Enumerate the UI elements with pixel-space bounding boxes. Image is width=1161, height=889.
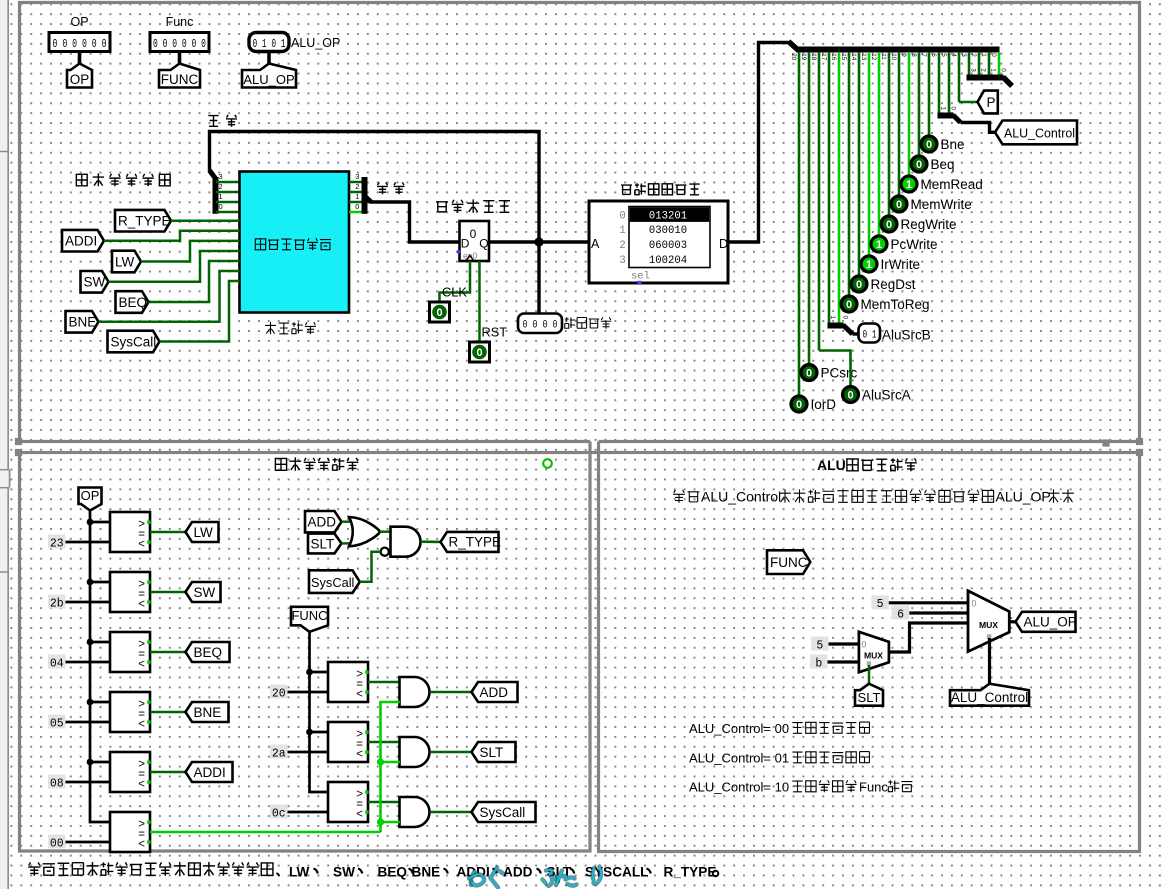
comparator LW	[110, 512, 150, 552]
svg-text:0: 0	[470, 227, 477, 241]
svg-text:0 1: 0 1	[863, 329, 877, 341]
wire constant 00	[66, 841, 111, 844]
svg-text:1: 1	[980, 53, 987, 57]
svg-text:6: 6	[930, 53, 937, 57]
mux M2	[968, 591, 1009, 652]
tunnel OP	[67, 64, 92, 88]
svg-text:Beq: Beq	[931, 157, 955, 172]
svg-text:16: 16	[830, 53, 837, 61]
svg-text:SW: SW	[84, 275, 106, 290]
svg-text:1: 1	[829, 316, 836, 320]
wire splitter bit12	[878, 52, 881, 235]
wire constant 08	[66, 781, 111, 784]
tunnel SysCall out	[472, 802, 536, 822]
svg-text:0: 0	[916, 159, 922, 171]
wire state-out bit2	[349, 191, 364, 194]
svg-text:ALU_Control: ALU_Control	[701, 489, 781, 505]
bus ROM D to splitter	[728, 43, 790, 243]
label combinational logic	[265, 322, 276, 334]
comparator F-SLT	[328, 722, 368, 762]
wire equals FSLT	[368, 741, 400, 744]
svg-text:PCsrc: PCsrc	[821, 366, 858, 381]
svg-text:LW: LW	[194, 525, 214, 540]
svg-text:SysCall: SysCall	[111, 334, 157, 349]
wire SLT to OR	[342, 542, 354, 545]
svg-text:0: 0	[926, 139, 932, 151]
mux M1	[859, 632, 889, 673]
pin Beq output	[911, 156, 927, 172]
and gate G-SLT	[400, 737, 430, 767]
svg-text:BEQ: BEQ	[378, 865, 407, 880]
svg-text:19: 19	[800, 53, 807, 61]
tunnel P	[978, 91, 998, 114]
svg-text:1: 1	[876, 239, 882, 251]
wire bus to ROM A	[539, 240, 589, 243]
tunnel ALU_OP	[242, 64, 296, 88]
svg-text:BEQ: BEQ	[119, 295, 148, 310]
svg-text:2a: 2a	[272, 747, 286, 760]
svg-text:SLT: SLT	[480, 745, 504, 760]
svg-text:12: 12	[870, 53, 877, 61]
label xiantai current-state	[208, 116, 218, 127]
constant 23	[48, 535, 66, 549]
junction register Q	[534, 237, 543, 246]
junction OP bus row LW	[87, 519, 94, 526]
wire OR to NAND	[380, 530, 391, 533]
tunnel OP down	[79, 488, 102, 511]
wire register clock	[440, 261, 471, 302]
svg-text:ADD: ADD	[308, 515, 337, 530]
svg-text:17: 17	[820, 53, 827, 61]
svg-text:030010: 030010	[649, 225, 687, 237]
svg-text:2: 2	[970, 53, 977, 57]
svg-text:<: <	[138, 659, 145, 671]
wire ADDI to box	[104, 231, 240, 241]
constant 2a	[270, 745, 288, 759]
wire OP branch BEQ	[90, 641, 110, 644]
svg-text:0: 0	[862, 639, 867, 649]
svg-text:2: 2	[219, 182, 223, 191]
svg-text:2b: 2b	[50, 597, 64, 610]
svg-text:ALU_OP: ALU_OP	[291, 36, 340, 50]
comparator F-SysCall	[328, 782, 368, 822]
wire pin Func to tunnel	[178, 52, 182, 65]
tunnel SLT select	[855, 684, 883, 706]
wire OP branch BNE	[90, 701, 110, 704]
wire splitter bit18	[818, 52, 821, 351]
svg-text:SW: SW	[194, 585, 216, 600]
tunnel SLT in2	[308, 534, 342, 554]
wire BNE to box	[99, 271, 240, 322]
svg-text:0 1 0 1: 0 1 0 1	[253, 38, 286, 51]
svg-text:<: <	[356, 689, 363, 701]
svg-text:<: <	[138, 599, 145, 611]
wire constant 04	[66, 661, 111, 664]
wire bus to probe	[537, 242, 540, 314]
wire to ALU_Control tunnel	[961, 123, 996, 133]
title instruction decode logic	[275, 458, 286, 470]
svg-text:11: 11	[880, 53, 887, 60]
wire AluSrcA bend	[819, 351, 851, 387]
svg-text:FUNC: FUNC	[770, 555, 808, 570]
frame bottom-right panel	[599, 453, 1140, 852]
svg-text:013201: 013201	[649, 210, 687, 222]
bus next-state to register D	[370, 202, 459, 242]
probe AluSrcB	[859, 324, 881, 343]
wire constant 20	[288, 691, 329, 694]
svg-text:MUX: MUX	[979, 620, 998, 630]
svg-text:CLK: CLK	[442, 285, 467, 300]
constant 00	[48, 835, 66, 849]
svg-text:AluSrcA: AluSrcA	[862, 388, 911, 403]
svg-text:0: 0	[1000, 68, 1007, 72]
tunnel LW	[186, 522, 219, 542]
svg-text:0: 0	[847, 390, 853, 402]
svg-text:1: 1	[866, 259, 872, 271]
junction OP bus row BEQ	[87, 639, 94, 646]
label state register	[436, 202, 448, 212]
wire register Q out	[489, 240, 539, 243]
svg-text:3: 3	[619, 255, 625, 267]
wire register reset	[478, 261, 481, 342]
frame top panel	[20, 3, 1140, 442]
wire constant 2b	[66, 601, 111, 604]
svg-text:RST: RST	[482, 325, 508, 340]
svg-text:Func: Func	[859, 780, 888, 795]
svg-text:0: 0	[476, 347, 482, 359]
wire FUNC branch SLT	[310, 731, 329, 734]
svg-text:18: 18	[810, 53, 817, 61]
svg-text:0: 0	[219, 202, 223, 211]
tunnel ALU_OP out	[1016, 612, 1076, 632]
wire splitter bit6	[938, 52, 941, 113]
tunnel BEQ	[186, 642, 230, 662]
svg-text:2: 2	[355, 182, 359, 191]
ROM microprogram	[589, 201, 728, 283]
constant 05	[48, 715, 66, 729]
svg-text:SW: SW	[333, 865, 355, 880]
watermark cyan script	[471, 872, 475, 886]
frame mid divider	[20, 451, 1140, 454]
constant 0c	[270, 805, 288, 819]
wire splitter bit10	[898, 52, 901, 195]
wire 5 to mux2	[889, 601, 968, 604]
svg-text:1: 1	[906, 179, 912, 191]
svg-text:D: D	[461, 237, 470, 251]
splitter state-in	[210, 171, 216, 179]
svg-text:ALU_OP: ALU_OP	[1024, 615, 1077, 630]
junction OP bus row BNE	[87, 699, 94, 706]
svg-text:LW: LW	[115, 254, 135, 269]
svg-text:2: 2	[980, 68, 987, 72]
wire splitter bit11	[888, 52, 891, 215]
svg-text:ALU_Control: ALU_Control	[951, 690, 1028, 705]
svg-text:00: 00	[50, 837, 64, 850]
svg-text:14: 14	[850, 53, 857, 61]
svg-text:5: 5	[877, 598, 884, 611]
wire constant 05	[66, 721, 111, 724]
wire splitter bit15	[848, 52, 851, 295]
wire splitter bit5	[948, 52, 951, 113]
svg-text:05: 05	[50, 717, 64, 730]
tunnel ADD in2	[305, 511, 342, 532]
wire state-in bit0	[216, 211, 240, 214]
svg-text:2: 2	[619, 240, 625, 252]
wire mux2 select	[988, 638, 991, 684]
tunnel FUNC down	[291, 607, 328, 632]
svg-text:ALU_Control= 01: ALU_Control= 01	[689, 751, 789, 766]
svg-text:3: 3	[970, 68, 977, 72]
tunnel SysCall in	[108, 331, 160, 353]
constant 5 big	[871, 595, 889, 609]
svg-text:0: 0	[896, 199, 902, 211]
tunnel BNE in	[66, 311, 99, 333]
pin RegDst output	[851, 276, 867, 292]
bus FUNC vertical	[310, 632, 329, 792]
svg-text:08: 08	[50, 777, 64, 790]
and gate G-SysCall	[400, 797, 430, 827]
wire mux1 select	[868, 665, 871, 684]
comparator ADDI	[110, 752, 150, 792]
svg-text:P: P	[987, 95, 996, 110]
svg-text:<: <	[138, 539, 145, 551]
wire SW to box	[109, 251, 240, 282]
svg-text:20: 20	[790, 53, 797, 61]
svg-text:IorD: IorD	[811, 397, 837, 412]
svg-text:9: 9	[900, 53, 907, 57]
wire splitter bit13	[868, 52, 871, 255]
pin MemRead output	[901, 176, 917, 192]
tunnel ADD out	[472, 682, 518, 702]
wire bright branch 822	[381, 821, 400, 824]
pin CLK input	[430, 302, 450, 322]
svg-text:0: 0	[886, 219, 892, 231]
svg-text:5: 5	[940, 53, 947, 57]
svg-text:ALU_Control= 00: ALU_Control= 00	[689, 721, 789, 736]
wire R_TYPE out	[421, 540, 442, 543]
svg-text:0: 0	[972, 599, 977, 609]
svg-text:7: 7	[920, 53, 927, 57]
svg-text:0: 0	[436, 307, 442, 319]
wire OP branch SW	[90, 581, 110, 584]
svg-text:<: <	[138, 779, 145, 791]
junction OP bus row SW	[87, 579, 94, 586]
tunnel BNE	[186, 702, 229, 722]
wire splitter bit7	[928, 52, 931, 135]
tunnel LW in	[112, 251, 141, 273]
svg-text:MUX: MUX	[864, 650, 883, 660]
svg-text:1: 1	[355, 192, 359, 201]
svg-text:0: 0	[355, 202, 359, 211]
bus feedback xiantai	[210, 132, 540, 243]
svg-text:0: 0	[619, 210, 625, 222]
wire splitter bit8	[918, 52, 921, 155]
wire mux2 out	[1009, 620, 1016, 623]
svg-text:OP: OP	[81, 488, 100, 503]
svg-text:Func: Func	[166, 15, 194, 29]
and gate G-ADD	[400, 677, 430, 707]
wire splitter bit4	[958, 52, 961, 102]
svg-text:15: 15	[840, 53, 847, 61]
svg-text:1: 1	[619, 225, 625, 237]
svg-text:10: 10	[890, 53, 897, 61]
svg-text:MemRead: MemRead	[921, 177, 983, 192]
wire pin ALU_OP to tunnel	[267, 52, 271, 65]
wire LW to box	[141, 241, 240, 262]
comparator BEQ	[110, 632, 150, 672]
svg-text:AluSrcB: AluSrcB	[882, 328, 931, 343]
label instruction decode signals	[76, 174, 87, 185]
tunnel BEQ in	[116, 291, 149, 313]
wire state-in bit2	[216, 191, 240, 194]
svg-text:LW: LW	[289, 865, 310, 880]
wire equals ADDI	[150, 771, 186, 774]
svg-text:4: 4	[950, 53, 957, 57]
caption text	[28, 862, 40, 875]
svg-text:060003: 060003	[649, 240, 687, 252]
pin RegWrite output	[881, 216, 897, 232]
wire equals LW	[150, 531, 186, 534]
wire splitter bit19	[808, 52, 811, 363]
svg-text:sel: sel	[631, 271, 650, 283]
svg-text:BNE: BNE	[412, 865, 441, 880]
wire to P tunnel	[959, 101, 978, 104]
svg-text:FUNC: FUNC	[291, 608, 327, 623]
svg-text:b: b	[815, 657, 822, 670]
wire constant 0c	[288, 811, 329, 814]
or gate U1	[349, 517, 380, 546]
comparator 00	[110, 812, 150, 852]
comparator BNE	[110, 692, 150, 732]
wire bright riser	[381, 702, 400, 832]
svg-text:IrWrite: IrWrite	[881, 257, 921, 272]
wire equals FSysCall	[368, 801, 400, 804]
wire splitter bit17	[828, 52, 831, 323]
pin PCsrc output	[801, 365, 817, 381]
wire splitter bit2	[978, 52, 981, 75]
wire R_TYPE to box	[171, 219, 240, 222]
junction OP bus row ADDI	[87, 759, 94, 766]
svg-text:23: 23	[50, 537, 64, 550]
svg-text:3: 3	[960, 53, 967, 57]
svg-text:SLT: SLT	[858, 690, 881, 705]
svg-text:R_TYPE: R_TYPE	[449, 535, 502, 550]
svg-text:OP: OP	[70, 72, 90, 87]
left window strip	[0, 0, 8, 889]
constant 04	[48, 655, 66, 669]
constant 2b	[48, 595, 66, 609]
register state 4-bit	[460, 221, 490, 261]
svg-text:PcWrite: PcWrite	[891, 237, 938, 252]
tunnel ADDI	[186, 762, 233, 782]
wire equals BNE	[150, 711, 186, 714]
constant 20	[270, 685, 288, 699]
pin MemWrite output	[891, 196, 907, 212]
constant b small	[810, 655, 828, 669]
wire state-out bit3	[349, 181, 364, 184]
tunnel R_TYPE in	[115, 210, 171, 232]
wire 5 to mux1	[829, 642, 860, 645]
svg-text:RegDst: RegDst	[871, 277, 916, 292]
splitter main 21-bit	[789, 42, 799, 51]
pin PcWrite output	[871, 236, 887, 252]
svg-text:0: 0	[841, 316, 848, 320]
wire SysCall to NAND	[360, 552, 381, 582]
junction bright 822	[377, 818, 384, 825]
tunnel ALU_Control select	[950, 684, 1029, 706]
svg-text:0: 0	[796, 399, 802, 411]
pin ALU_OP 4-bit output	[249, 33, 289, 52]
state machine combinational box	[240, 172, 350, 313]
frame handles	[15, 438, 22, 445]
indicator green ring	[543, 459, 552, 468]
wire splitter bit3	[968, 52, 971, 75]
svg-text:ALU_OP: ALU_OP	[996, 489, 1051, 505]
svg-text:0: 0	[846, 299, 852, 311]
svg-text:13: 13	[860, 53, 867, 61]
svg-text:1: 1	[219, 192, 223, 201]
and gate U2 inverted input	[391, 527, 421, 557]
svg-text:0 0 0 0 0 0: 0 0 0 0 0 0	[153, 38, 206, 51]
bus OP vertical	[90, 511, 110, 823]
svg-text:ADD: ADD	[503, 865, 533, 880]
tunnel SW	[186, 582, 221, 602]
wire FUNC branch ADD	[310, 671, 329, 674]
svg-text:SysCall: SysCall	[480, 805, 526, 820]
svg-text:3: 3	[219, 172, 223, 181]
svg-text:R_TYPE: R_TYPE	[118, 214, 171, 229]
svg-text:1: 1	[990, 68, 997, 72]
wire state-out bit1	[349, 201, 364, 204]
svg-text:FUNC: FUNC	[161, 72, 199, 87]
pin MemToReg output	[841, 296, 857, 312]
svg-text:0 0 0 0: 0 0 0 0	[523, 320, 558, 332]
wire splitter bit14	[858, 52, 861, 275]
comparator SW	[110, 572, 150, 612]
svg-text:R_TYPE: R_TYPE	[664, 865, 717, 880]
svg-text:Bne: Bne	[941, 137, 965, 152]
frame bottom-left panel	[20, 453, 591, 852]
pin IrWrite output	[861, 256, 877, 272]
wire pin OP to tunnel	[78, 52, 82, 65]
svg-text:1: 1	[940, 107, 947, 111]
wire b to mux1	[828, 660, 860, 663]
junction FUNC bus row SLT	[306, 729, 313, 736]
wire 6 to mux2	[909, 611, 968, 614]
junction FUNC bus row ADD	[306, 669, 313, 676]
wire equals SW	[150, 591, 186, 594]
subtitle explain line	[673, 490, 685, 503]
svg-text:5: 5	[816, 639, 823, 652]
label microprogram controller	[621, 185, 632, 194]
svg-text:<: <	[356, 749, 363, 761]
label citai next-state	[377, 182, 388, 194]
svg-text:<: <	[138, 839, 145, 851]
svg-text:<: <	[138, 719, 145, 731]
wire ADD to OR	[342, 520, 354, 523]
svg-text:04: 04	[50, 657, 64, 670]
svg-text:ADDI: ADDI	[65, 234, 97, 249]
svg-text:ADD: ADD	[480, 685, 509, 700]
wire and out ADD	[430, 691, 472, 694]
pin IorD output	[791, 396, 807, 412]
wire splitter bit20	[798, 52, 801, 395]
constant 5 small	[811, 637, 829, 651]
tunnel SysCall in2	[309, 570, 360, 593]
wire splitter bit9	[908, 52, 911, 175]
label current state	[565, 317, 576, 328]
svg-text:20: 20	[272, 687, 286, 700]
